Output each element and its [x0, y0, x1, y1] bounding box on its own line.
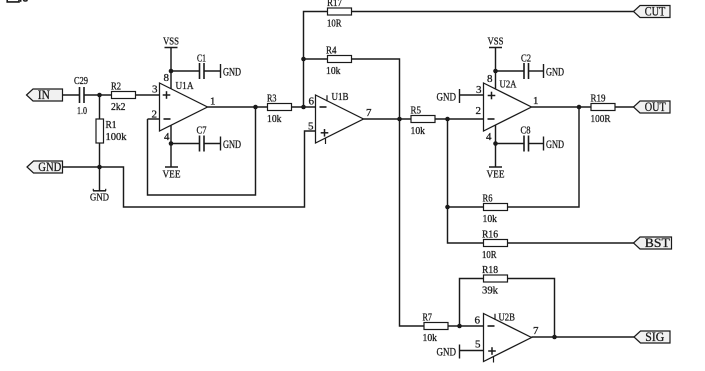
wire U1A output	[208, 106, 268, 108]
wire R4 to output node	[352, 59, 400, 119]
wire R17 to CUT	[352, 11, 634, 13]
port OUT	[634, 99, 671, 114]
svg-text:5: 5	[475, 339, 481, 351]
wire VSS to U1A pin8	[170, 48, 172, 90]
wire R4 branch	[304, 58, 328, 60]
op-amp U2A	[484, 79, 532, 132]
U1B output junction	[397, 117, 402, 122]
capacitor C2	[521, 53, 531, 80]
wire U1A feedback loop	[148, 107, 256, 195]
svg-text:C7: C7	[197, 125, 207, 137]
svg-text:5: 5	[308, 121, 314, 133]
power VEE (U2A)	[487, 167, 505, 181]
U2A pin8 junction	[493, 69, 498, 74]
wire output node down to R7	[400, 119, 425, 326]
resistor R7	[423, 312, 449, 345]
U2A pin2 junction	[445, 117, 450, 122]
svg-text:4: 4	[486, 131, 492, 143]
svg-text:1: 1	[210, 96, 216, 108]
svg-text:10k: 10k	[411, 125, 426, 137]
svg-text:R19: R19	[591, 93, 606, 105]
svg-text:GND: GND	[437, 90, 457, 104]
svg-text:IN: IN	[38, 87, 51, 102]
wire R19 to OUT	[615, 106, 634, 108]
svg-text:R7: R7	[423, 312, 433, 324]
svg-text:CUT: CUT	[645, 4, 666, 19]
svg-text:10k: 10k	[267, 113, 282, 125]
svg-text:3: 3	[152, 84, 158, 96]
svg-text:10R: 10R	[327, 18, 342, 30]
gnd flag at C1	[204, 64, 241, 79]
svg-text:GND: GND	[223, 137, 241, 151]
op-amp U1A	[160, 80, 208, 131]
svg-text:GND: GND	[546, 65, 564, 79]
svg-text:GND: GND	[437, 344, 457, 358]
wire U2A output	[532, 106, 592, 108]
wire pin4 to C8	[496, 143, 525, 145]
resistor R2	[111, 81, 136, 114]
resistor R18	[482, 264, 508, 297]
wire pin6 node up to R18	[460, 279, 484, 327]
gnd flag at U2A pin3	[437, 89, 484, 104]
svg-text:GND: GND	[90, 193, 109, 204]
svg-text:R4: R4	[326, 45, 337, 57]
svg-text:C29: C29	[74, 75, 88, 87]
wire U1A pin2 input	[148, 118, 160, 120]
R4 tap junction	[301, 57, 306, 62]
resistor R4	[326, 45, 352, 78]
gnd flag at C7	[204, 137, 241, 152]
svg-text:8: 8	[487, 73, 493, 85]
wire R7 to U2B pin6	[448, 325, 484, 327]
resistor R19	[591, 93, 616, 126]
wire pin6 node up to R17	[304, 12, 328, 108]
U2A pin4 junction	[493, 141, 498, 146]
svg-text:GND: GND	[546, 137, 564, 151]
svg-text:6: 6	[475, 315, 481, 327]
port CUT	[634, 4, 671, 19]
wire U2A pin4 to VEE	[495, 125, 497, 167]
svg-text:VSS: VSS	[488, 36, 504, 48]
svg-text:2k2: 2k2	[111, 101, 126, 113]
port SIG	[634, 329, 670, 344]
capacitor C29	[74, 75, 88, 103]
svg-text:GND: GND	[223, 65, 241, 79]
wire pin8 to C1	[171, 70, 200, 72]
U2B output junction	[552, 335, 557, 340]
ground node junction	[97, 165, 102, 170]
power VSS (U2A)	[488, 36, 504, 48]
svg-text:U2A: U2A	[500, 79, 517, 91]
wire U1A pin4 to VEE	[170, 125, 172, 167]
svg-text:VEE: VEE	[487, 169, 505, 181]
wire R3 to U1B pin6	[292, 106, 316, 108]
svg-text:SIG: SIG	[645, 329, 664, 344]
wire GND port to node	[63, 166, 100, 168]
power VEE (U1A)	[163, 167, 181, 181]
svg-text:10R: 10R	[482, 249, 497, 261]
svg-text:6: 6	[309, 96, 315, 108]
svg-text:100R: 100R	[591, 113, 612, 125]
svg-text:10k: 10k	[483, 213, 498, 225]
svg-text:R5: R5	[411, 105, 422, 117]
wire R2 to U1A pin3	[136, 94, 160, 96]
svg-text:VEE: VEE	[163, 169, 181, 181]
node A junction	[97, 93, 102, 98]
port BST	[634, 235, 672, 250]
capacitor C1	[197, 53, 206, 80]
wire R18 to U2B output	[508, 279, 555, 338]
wire U1B output	[364, 118, 412, 120]
svg-text:R6: R6	[483, 193, 493, 205]
svg-text:100k: 100k	[106, 131, 127, 143]
capacitor C8	[521, 125, 531, 152]
port IN	[27, 87, 63, 102]
svg-text:C8: C8	[521, 125, 531, 137]
svg-text:7: 7	[366, 107, 372, 119]
svg-text:2: 2	[476, 105, 482, 117]
capacitor C7	[197, 125, 207, 152]
wire pin2 node down	[448, 119, 484, 243]
wire pin4 to C7	[171, 143, 200, 145]
wire R1 to ground node	[99, 143, 101, 167]
resistor R17	[327, 0, 352, 30]
U1B pin6 junction	[301, 105, 306, 110]
svg-text:C2: C2	[521, 53, 531, 65]
svg-text:GND: GND	[38, 159, 61, 174]
wire ground to U1B pin5	[100, 131, 316, 207]
resistor R1	[96, 119, 104, 143]
op-amp U1B	[316, 91, 364, 144]
U1A pin8 junction	[169, 69, 174, 74]
wire R6 branch	[448, 206, 484, 208]
svg-text:3: 3	[476, 84, 482, 96]
svg-text:4: 4	[164, 131, 170, 143]
ground symbol GND	[99, 167, 101, 191]
svg-text:8: 8	[164, 72, 170, 84]
wire R6 to output node	[508, 107, 580, 207]
power VSS (U1A)	[163, 36, 179, 48]
svg-text:U1B: U1B	[332, 91, 349, 103]
resistor R6	[483, 193, 508, 226]
svg-text:U1A: U1A	[176, 80, 194, 92]
svg-text:U2B: U2B	[499, 312, 516, 324]
wire C29 to node A	[84, 94, 112, 96]
svg-text:10k: 10k	[326, 65, 341, 77]
op-amp U2B	[484, 312, 532, 363]
svg-text:R16: R16	[482, 229, 498, 241]
wire IN to C29	[63, 94, 80, 96]
svg-text:39k: 39k	[482, 285, 498, 297]
gnd flag at C8	[529, 137, 565, 152]
wire R5 to U2A pin2	[435, 118, 484, 120]
svg-text:1.0: 1.0	[77, 105, 87, 117]
svg-text:10k: 10k	[423, 332, 438, 344]
svg-text:7: 7	[533, 325, 539, 337]
R6 tap junction	[445, 205, 450, 210]
svg-text:BST: BST	[645, 235, 670, 250]
svg-text:R3: R3	[267, 93, 277, 105]
port GND (input ground)	[27, 159, 63, 174]
wire R16 to BST	[508, 242, 634, 244]
svg-text:VSS: VSS	[163, 36, 179, 48]
resistor R3	[267, 93, 292, 126]
svg-text:OUT: OUT	[645, 99, 666, 114]
svg-text:R18: R18	[482, 264, 498, 276]
gnd flag at C2	[529, 64, 565, 79]
wire pin8 to C2	[496, 70, 525, 72]
resistor R16	[482, 229, 508, 262]
U2A output junction	[577, 105, 582, 110]
svg-text:R1: R1	[106, 119, 117, 131]
svg-text:1: 1	[533, 95, 539, 107]
svg-text:R17: R17	[327, 0, 342, 9]
resistor R5	[411, 105, 436, 138]
screen artifact (cut-off toolbar glyphs)	[7, 0, 19, 2]
svg-text:R2: R2	[111, 81, 121, 93]
U2B pin6 junction	[457, 324, 462, 329]
gnd flag at U2B pin5	[437, 344, 484, 358]
U1A pin4 junction	[169, 141, 174, 146]
wire node A to R1	[99, 95, 101, 119]
wire U2B output to SIG	[532, 336, 635, 338]
svg-text:C1: C1	[197, 53, 206, 65]
wire VSS to U2A pin8	[495, 48, 497, 90]
U1A output junction	[253, 105, 258, 110]
